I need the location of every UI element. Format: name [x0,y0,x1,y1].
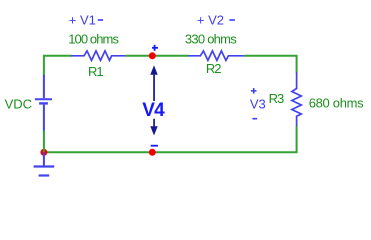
wire top middle green segment [126,55,189,57]
V4 up arrow [150,65,157,101]
node junction dot top (node between R1 and R2) [149,52,156,59]
svg-text:V4: V4 [142,100,165,121]
voltage source VDC battery top lead [43,75,45,98]
wire right-bottom green segment with corner [43,126,297,152]
voltage source VDC battery long plate [35,98,52,100]
svg-text:680 ohms: 680 ohms [309,95,364,110]
wire left-bottom green segment [43,131,45,153]
voltage source VDC battery bottom lead [43,105,45,132]
svg-text:100 ohms: 100 ohms [68,31,119,46]
node junction dot bottom middle [149,149,156,156]
svg-text:330 ohms: 330 ohms [185,31,237,46]
svg-text:R1: R1 [88,64,103,79]
svg-text:+ V1: + V1 [69,13,96,28]
ground symbol [34,152,55,175]
V4 down arrow [150,119,157,136]
polarity plus sign for V4 (top) [152,45,158,51]
node junction dot bottom left (ground node) [40,149,47,156]
resistor R1 [71,51,126,61]
wire top-right green segment with corner [244,56,297,73]
polarity minus sign for V3 [252,118,257,120]
svg-text:V3: V3 [250,96,266,111]
svg-text:VDC: VDC [5,96,32,111]
resistor R2 [188,51,244,61]
svg-text:R2: R2 [206,61,221,76]
polarity plus sign for V3 [251,88,257,94]
svg-text:R3: R3 [269,91,284,106]
polarity minus sign for V4 (bottom) [151,145,158,147]
resistor R3 (vertical) [292,72,301,127]
voltage source VDC battery short plate [39,102,48,104]
svg-text:+ V2: + V2 [197,13,224,28]
wire top-left green segment with corner [44,56,72,76]
